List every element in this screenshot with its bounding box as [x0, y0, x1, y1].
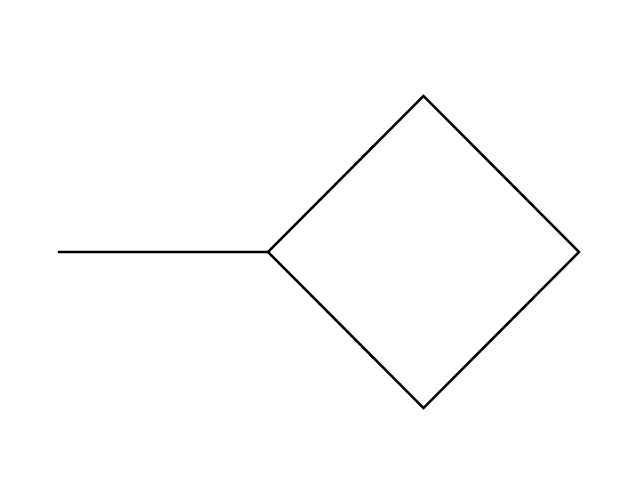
cyclobutane ring (diamond): [268, 96, 579, 408]
bond: methyl substituent line: [59, 251, 268, 254]
